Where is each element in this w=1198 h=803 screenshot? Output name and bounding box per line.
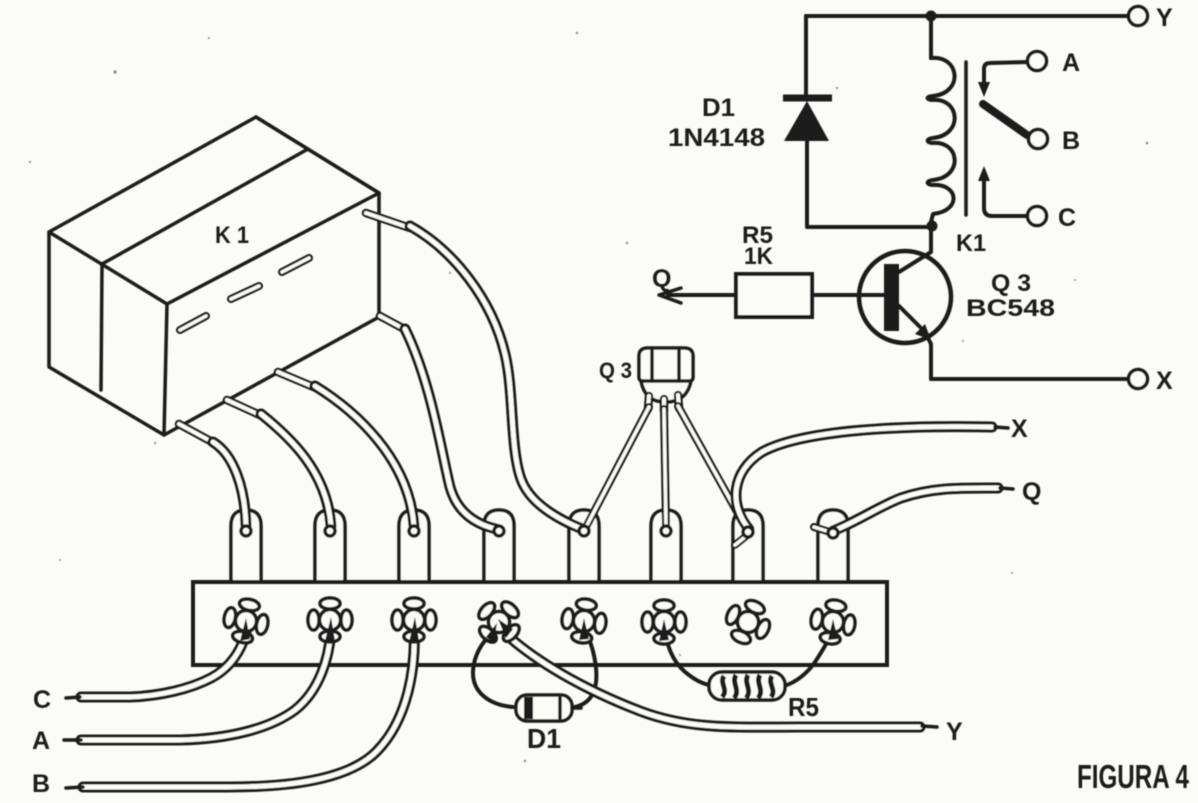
lug 5 [569, 510, 599, 581]
svg-text:BC548: BC548 [966, 295, 1055, 322]
diode D1 loop left arc [473, 631, 513, 707]
Q3 body bottom dome [641, 381, 691, 402]
svg-text:1N4148: 1N4148 [668, 124, 765, 152]
node junction top [926, 11, 937, 22]
svg-text:X: X [1011, 415, 1028, 443]
screw 8 [808, 597, 859, 648]
slot mark 1 on front face [180, 316, 206, 330]
wire Y tip at screw 4 [498, 619, 513, 638]
lug 3 [399, 510, 429, 581]
Q3 body [639, 348, 693, 381]
lug 1 [231, 510, 261, 581]
svg-text:B: B [32, 770, 50, 798]
Q3 lead center to lug6 [664, 409, 666, 527]
arrowhead down at pivot [978, 82, 990, 97]
wire tip at screw 1 [240, 618, 250, 641]
Q3 lead left to lug5 [586, 407, 649, 527]
node junction coil bottom [927, 221, 938, 232]
box cover seam left face [101, 264, 102, 390]
Q3 lead stub center [660, 399, 669, 411]
lug 3 hole [409, 526, 419, 536]
base lead [812, 293, 884, 297]
svg-text:A: A [32, 727, 50, 755]
diode lead tip at screw 4 [486, 623, 497, 643]
lug 6 [651, 510, 681, 581]
screw 6 [642, 600, 686, 644]
relay pin 2 [227, 400, 262, 416]
box top-back edge [256, 117, 379, 193]
resistor R5 left arc [666, 630, 709, 685]
wire D1 bottom lead [807, 139, 928, 227]
strip body [193, 582, 887, 665]
wire pin4 to lug4 [405, 329, 496, 529]
wire pin5 to lug5 [410, 226, 582, 529]
relay core bar [964, 62, 968, 215]
svg-text:K1: K1 [956, 230, 986, 257]
Q3 lead stub left [648, 396, 649, 409]
svg-text:1K: 1K [744, 243, 774, 270]
relay pin 4 [380, 316, 406, 330]
resistor R5 right arc [784, 630, 833, 686]
resistor R5 [736, 274, 812, 317]
svg-text:Q 3: Q 3 [991, 270, 1031, 297]
lug 1 hole [241, 526, 251, 536]
svg-text:A: A [1062, 49, 1080, 77]
contact B terminal [1029, 130, 1048, 149]
emitter lead with arrow [899, 306, 920, 327]
contact C terminal [1028, 207, 1047, 226]
wire pin3 to lug3 [315, 386, 414, 526]
lug 7 [733, 510, 763, 581]
relay coil K1 [928, 58, 955, 222]
tick and label Q [1000, 488, 1013, 489]
box front-left edge [164, 304, 167, 435]
lug 6 hole [661, 526, 671, 536]
wire C [81, 627, 247, 697]
tick and label B [66, 787, 83, 788]
svg-text:D1: D1 [702, 94, 735, 122]
svg-text:C: C [33, 686, 51, 714]
svg-text:C: C [1058, 204, 1076, 232]
contact A terminal [1028, 52, 1047, 71]
wire coil top lead [929, 16, 933, 58]
tick and label C [66, 697, 80, 698]
slot mark 3 on front face [282, 258, 309, 272]
screw 4 [468, 591, 530, 653]
resistor R5 body [709, 672, 785, 700]
wire Q arrow [668, 293, 736, 297]
wire stub at lug8 [814, 527, 833, 533]
relay pin 1 [179, 424, 214, 443]
box cover seam top [102, 149, 308, 264]
svg-text:Q: Q [652, 265, 671, 293]
wire Y rail [806, 14, 1127, 18]
svg-text:B: B [1062, 127, 1080, 155]
lug 8 [818, 510, 848, 581]
wire collector lead [899, 227, 931, 272]
screw 2 [308, 598, 352, 642]
tick and label A [64, 738, 81, 742]
svg-text:Q: Q [1022, 478, 1041, 506]
screw 1 [220, 595, 272, 647]
svg-text:X: X [1156, 367, 1173, 395]
wire Q from lug8 [833, 488, 998, 531]
R5 bands [722, 675, 773, 698]
diode D1 cathode bar [783, 95, 832, 102]
armature arm thick [983, 104, 1027, 135]
lug 5 hole [579, 526, 589, 536]
svg-text:Y: Y [1156, 4, 1173, 32]
lug 2 [315, 510, 345, 581]
resistor lead tip at screw 6 [659, 619, 669, 641]
diode D1 body [516, 695, 572, 721]
contact A lead [984, 62, 1028, 86]
wire X from lug7 [736, 427, 992, 529]
lug 2 hole [325, 526, 335, 536]
wire D1 top lead [804, 16, 808, 97]
tick and label Y [922, 726, 937, 727]
svg-text:K 1: K 1 [215, 222, 249, 249]
D1 cathode band [524, 697, 533, 719]
terminal Y [1129, 7, 1148, 26]
svg-text:D1: D1 [527, 723, 561, 754]
terminal X [1129, 370, 1148, 389]
D1 inner line [558, 698, 562, 718]
wire X rail [931, 377, 1128, 381]
Q3 lead right to lug7 [678, 406, 746, 528]
wire stub at lug7 [735, 533, 750, 545]
tick and label X [995, 427, 1008, 428]
box top-left edge to front corner [49, 232, 167, 304]
wire Y [508, 636, 920, 727]
screw 7 [719, 593, 777, 651]
lug 8 hole [828, 528, 838, 538]
svg-text:Q 3: Q 3 [599, 358, 632, 383]
wire tip at screw 3 [409, 617, 419, 642]
relay box K1 outline [49, 117, 379, 435]
lug 4 hole [494, 526, 504, 536]
wire tip at screw 2 [325, 617, 335, 641]
svg-text:FIGURA 4: FIGURA 4 [1077, 758, 1189, 795]
relay pin 3 [278, 372, 316, 388]
lug 7 hole [743, 527, 753, 537]
wire A [81, 627, 331, 740]
transistor Q3 circle [859, 251, 951, 343]
slot mark 2 on front face [231, 286, 259, 299]
lug 4 [484, 510, 514, 581]
transistor base bar [884, 264, 899, 331]
Q3 facet lines [652, 349, 679, 381]
box ridge front-top edge [167, 193, 379, 304]
svg-text:R5: R5 [788, 692, 819, 722]
diode D1 loop right arc [575, 631, 596, 707]
wire pin2 to lug2 [261, 414, 331, 526]
relay pin 5 [366, 213, 410, 228]
contact C arrow up [978, 166, 990, 181]
D1 right lead [572, 706, 581, 710]
wire pin1 to lug1 [213, 442, 246, 526]
diode D1 anode triangle [784, 101, 829, 141]
diode lead tip at screw 5 [579, 618, 589, 640]
Q3 lead stub right [678, 395, 679, 408]
screw 3 [392, 598, 436, 642]
screw 5 [559, 596, 609, 646]
svg-text:Y: Y [946, 718, 963, 746]
resistor lead tip at screw 8 [828, 619, 838, 640]
wire B [83, 627, 414, 787]
